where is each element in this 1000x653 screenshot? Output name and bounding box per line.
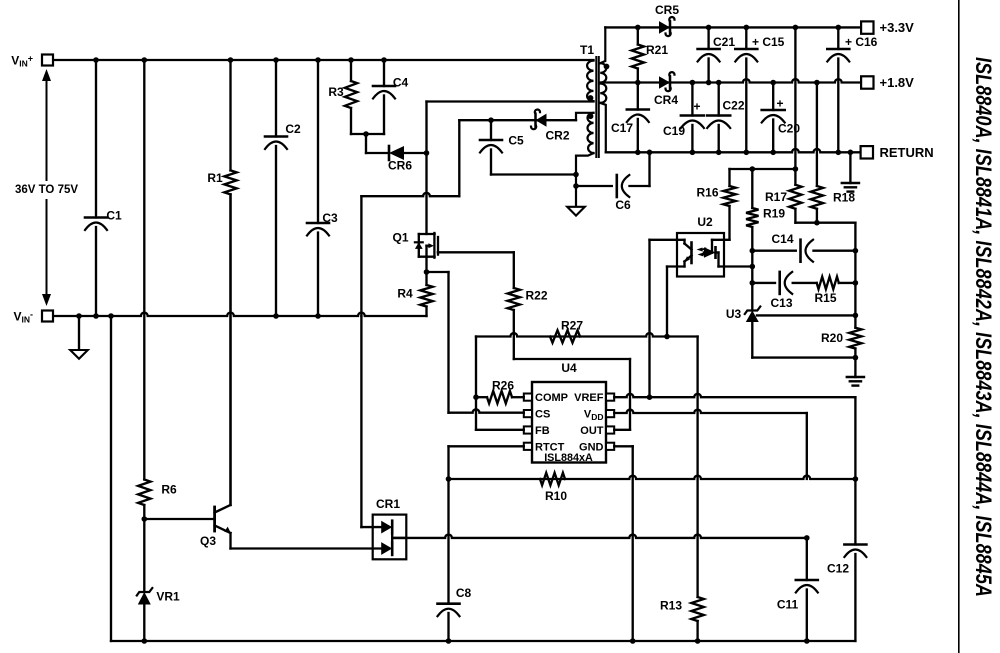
resistor R6 — [138, 480, 150, 506]
svg-text:R13: R13 — [660, 599, 682, 613]
diode CR5 — [659, 21, 670, 34]
wire U2 led cathode — [719, 265, 753, 267]
T1 phase dot primary — [588, 95, 594, 101]
U4 pins — [524, 394, 532, 401]
capacitor C13 — [778, 272, 781, 294]
svg-text:R21: R21 — [646, 43, 668, 57]
svg-text:U3: U3 — [726, 307, 742, 321]
junction bottom VR1 — [142, 638, 148, 644]
wire C6 line — [576, 185, 612, 187]
junction C5 top — [488, 117, 494, 123]
junction C13 left — [750, 280, 756, 286]
svg-text:COMP: COMP — [535, 392, 568, 404]
wire R27 line — [476, 333, 698, 336]
svg-text:C2: C2 — [285, 122, 301, 136]
svg-text:CS: CS — [535, 409, 550, 421]
junction ret C22 — [716, 150, 722, 156]
capacitor C1 — [95, 60, 97, 218]
T1 primary winding — [587, 61, 593, 102]
svg-text:R4: R4 — [397, 287, 413, 301]
svg-text:RTCT: RTCT — [535, 441, 565, 453]
resistor R26 — [487, 391, 512, 403]
junction 3v3 C21 — [706, 25, 712, 31]
svg-text:CR1: CR1 — [376, 497, 400, 511]
junction bottom C11 — [804, 638, 810, 644]
wire base — [144, 518, 213, 520]
T1 aux winding — [588, 113, 594, 153]
svg-text:U4: U4 — [561, 361, 577, 375]
wire R26 to COMP — [476, 396, 487, 398]
junction +3.3 feed — [793, 166, 799, 172]
wire +3.3V rail — [605, 26, 861, 28]
junction R19 top — [750, 166, 756, 172]
wire VREF line — [614, 394, 855, 397]
optocoupler U2 box — [677, 233, 724, 277]
junction 1v8 R18 — [814, 80, 820, 86]
junction VREF U2 — [647, 394, 653, 400]
wire +1.8V rail — [601, 79, 861, 82]
junction R3C4 — [363, 131, 369, 137]
wire Q3 emitter — [229, 533, 231, 549]
svg-text:+3.3V: +3.3V — [880, 20, 915, 35]
wire Q1 source — [425, 257, 427, 272]
junction R20 bottom — [853, 355, 859, 361]
ground aux — [567, 207, 585, 216]
junction 1v8 C20 — [770, 80, 776, 86]
svg-text:C12: C12 — [827, 562, 849, 576]
resistor R20 — [849, 328, 861, 349]
wire R27 right drop — [696, 337, 698, 598]
resistor R4 — [425, 272, 427, 285]
capacitor C8 — [438, 602, 460, 605]
junction ret gnd — [848, 150, 854, 156]
svg-text:C14: C14 — [771, 232, 793, 246]
capacitor C21 — [707, 27, 709, 49]
svg-text:R17: R17 — [765, 190, 787, 204]
terminal VIN- — [42, 311, 53, 322]
terminal +1.8V — [861, 76, 873, 88]
resistor R18 — [816, 83, 818, 187]
shunt regulator U3 — [746, 311, 759, 323]
wire U3 anode — [751, 322, 753, 358]
junction Q1 source — [424, 269, 430, 275]
junction 3v3 feed — [793, 25, 799, 31]
wire CS line — [449, 409, 524, 412]
svg-text:Q1: Q1 — [392, 231, 408, 245]
terminal +3.3V — [861, 21, 873, 33]
wire source to CS — [427, 271, 449, 273]
T1 secondary winding lower — [600, 84, 606, 103]
ground R20 — [854, 358, 856, 377]
diode CR1 upper — [381, 521, 392, 534]
resistor R16 — [723, 186, 735, 206]
svg-text:T1: T1 — [580, 43, 594, 57]
wire C6 right — [630, 185, 650, 187]
junction bottom C8 — [446, 638, 452, 644]
resistor R19 — [751, 169, 753, 208]
wire CR1 upper anode — [361, 526, 381, 528]
junction aux node2 — [573, 183, 579, 189]
capacitor C15 — [745, 27, 747, 49]
svg-text:C1: C1 — [106, 209, 122, 223]
junction ret C19 — [690, 150, 696, 156]
svg-text:+1.8V: +1.8V — [880, 75, 915, 90]
junction R10 left — [446, 476, 452, 482]
transistor Q3 — [213, 507, 216, 531]
svg-text:ISL8840A, ISL8841A, ISL8842A,: ISL8840A, ISL8841A, ISL8842A, ISL8843A, … — [971, 57, 996, 597]
wire CR6 to drain — [404, 152, 427, 154]
svg-text:R1: R1 — [207, 171, 223, 185]
wire bottom rail — [111, 640, 855, 642]
resistor R22 — [508, 288, 520, 310]
svg-text:C6: C6 — [615, 198, 631, 212]
junction ret C16 — [836, 150, 842, 156]
wire CR2 line — [459, 119, 576, 121]
junction 3v3 C16 — [836, 25, 842, 31]
resistor R10 — [540, 473, 565, 485]
wire C14 line — [752, 250, 796, 252]
resistor R3 — [350, 60, 352, 81]
capacitor C17 — [637, 83, 639, 110]
svg-text:RETURN: RETURN — [880, 145, 934, 160]
junction C14 right — [853, 248, 859, 254]
junction 1v8 R21 — [635, 80, 641, 86]
capacitor C20 — [772, 83, 774, 111]
svg-text:+: + — [776, 97, 783, 111]
wire drain vertical — [425, 102, 427, 235]
input range arrow — [46, 80, 48, 180]
wire gate — [438, 251, 514, 253]
junction ret C20 — [770, 150, 776, 156]
svg-text:C4: C4 — [393, 76, 409, 90]
terminal RETURN — [861, 146, 873, 158]
resistor R13 — [691, 597, 703, 621]
junction R10 right — [853, 476, 859, 482]
junction R26 left — [473, 394, 479, 400]
wire primary bottom — [427, 100, 594, 102]
ground input — [78, 316, 80, 350]
wire left bus down — [110, 316, 112, 641]
capacitor C22 — [718, 83, 720, 116]
junction bottom GND — [630, 638, 636, 644]
wire U2 emitter out — [667, 265, 685, 267]
transformer core — [595, 57, 597, 157]
svg-text:C11: C11 — [777, 598, 799, 612]
junction bottom R13 — [695, 638, 701, 644]
svg-text:R26: R26 — [492, 379, 514, 393]
junction R6 base — [142, 516, 148, 522]
diode CR1 lower — [381, 542, 392, 555]
wire aux bottom lead — [576, 153, 594, 207]
capacitor C11 — [806, 538, 808, 580]
diode CR6 — [389, 146, 404, 160]
junction R18 bottom — [814, 220, 820, 226]
svg-text:OUT: OUT — [580, 425, 604, 437]
svg-text:+: + — [693, 100, 700, 114]
wire CR1 cathodes — [391, 527, 393, 548]
svg-text:VR1: VR1 — [156, 590, 180, 604]
svg-text:CR2: CR2 — [545, 129, 569, 143]
wire R27 left drop — [475, 337, 477, 398]
capacitor C14 — [799, 240, 802, 262]
capacitor C16 — [837, 27, 839, 49]
junction CR1 VDD — [804, 535, 810, 541]
junction 3v3 C15 — [744, 25, 750, 31]
junction U3 line — [853, 313, 859, 319]
wire OUT riser — [629, 359, 631, 430]
junction R27 U2 — [664, 334, 670, 340]
wire C8 drop — [447, 479, 449, 604]
resistor R27 — [550, 330, 580, 342]
wire RTCT line — [449, 445, 524, 447]
wire node to CR6 — [365, 134, 367, 153]
junction 1v8 C21 — [706, 80, 712, 86]
wire +3.3 feed down — [794, 27, 796, 169]
junction ret C17 — [635, 150, 641, 156]
ground RETURN — [849, 152, 851, 183]
svg-text:C13: C13 — [770, 296, 792, 310]
U2 phototransistor — [690, 243, 693, 264]
junction CR6 drain — [424, 150, 430, 156]
svg-text:Q3: Q3 — [200, 534, 216, 548]
svg-text:R16: R16 — [696, 186, 718, 200]
svg-text:ISL884xA: ISL884xA — [544, 452, 593, 464]
capacitor C4 — [383, 60, 385, 86]
svg-text:C21: C21 — [713, 35, 735, 49]
junction ret C15 — [744, 150, 750, 156]
wire VIN- rail — [53, 313, 426, 316]
wire R22 bottom — [513, 310, 515, 359]
wire U2 collector out — [650, 239, 685, 241]
terminal VIN+ — [42, 55, 53, 66]
T1 phase dot aux — [588, 113, 594, 119]
capacitor C12 — [854, 479, 856, 545]
svg-text:R15: R15 — [814, 291, 836, 305]
junction 1v8 C22 — [716, 80, 722, 86]
svg-text:CR6: CR6 — [388, 159, 412, 173]
svg-text:36V TO 75V: 36V TO 75V — [15, 184, 78, 196]
diode CR4 — [659, 76, 670, 89]
svg-text:C19: C19 — [663, 124, 685, 138]
svg-text:R6: R6 — [161, 483, 177, 497]
capacitor C19 — [691, 83, 693, 116]
junction 3v3 R21 — [635, 25, 641, 31]
wire GND line — [614, 445, 633, 447]
wire FB drop — [475, 397, 477, 430]
wire gate to R22 — [513, 252, 515, 288]
svg-text:C20: C20 — [778, 122, 800, 136]
svg-text:C5: C5 — [508, 134, 524, 148]
mosfet Q1 — [419, 233, 435, 235]
svg-text:CR4: CR4 — [654, 93, 678, 107]
wire R16 top — [728, 169, 730, 186]
resistor R15 — [817, 277, 839, 289]
resistor R17 — [794, 169, 796, 185]
wire U3 cathode line — [757, 314, 855, 316]
U2 led — [711, 240, 713, 253]
wire C5 to aux node — [491, 173, 576, 175]
sidebar divider — [958, 0, 960, 653]
junction R15 right — [853, 280, 859, 286]
wire U2 led anode — [712, 239, 730, 241]
wire C13 line — [752, 282, 775, 284]
svg-text:R10: R10 — [545, 489, 567, 503]
wire aux top lead — [576, 113, 594, 120]
wire R3-C4 node — [351, 133, 384, 135]
capacitor C6 — [615, 175, 618, 197]
svg-text:R3: R3 — [328, 85, 344, 99]
wire VDD line — [614, 410, 807, 413]
controller U4 box — [532, 382, 606, 463]
svg-text:R20: R20 — [821, 331, 843, 345]
wire Q3 collector — [229, 194, 231, 505]
svg-text:GND: GND — [579, 441, 604, 453]
wire CR1 out line — [392, 535, 807, 538]
wire CR6 left — [366, 152, 389, 154]
capacitor C5 — [490, 120, 492, 140]
svg-text:C3: C3 — [322, 211, 338, 225]
diode pair CR1 box — [373, 515, 407, 560]
junction ret C6 — [647, 150, 653, 156]
wire RETURN rail — [606, 149, 861, 152]
svg-text:U2: U2 — [697, 215, 713, 229]
resistor R1 — [229, 60, 231, 170]
capacitor C3 — [317, 60, 319, 223]
svg-text:R19: R19 — [763, 207, 785, 221]
wire secondary top lead — [600, 27, 605, 63]
wire top rail VIN+ — [53, 59, 593, 61]
wire R10 line — [449, 476, 856, 479]
svg-text:C17: C17 — [611, 121, 633, 135]
svg-text:R27: R27 — [561, 319, 583, 333]
junction U2 cathode — [750, 264, 756, 270]
wire R17R18 bottoms — [795, 222, 855, 224]
wire OUT line — [614, 429, 630, 431]
svg-text:FB: FB — [535, 425, 550, 437]
diode CR2 — [536, 114, 547, 127]
svg-text:C8: C8 — [456, 586, 472, 600]
wire drain — [361, 193, 459, 196]
zener VR1 — [143, 519, 145, 592]
junction dots top rail — [93, 57, 99, 63]
svg-text:R22: R22 — [525, 289, 547, 303]
svg-text:+ C15: + C15 — [752, 35, 785, 49]
svg-text:C22: C22 — [723, 99, 745, 113]
T1 phase dot secondary — [604, 64, 610, 70]
svg-text:CR5: CR5 — [655, 3, 679, 17]
junction 1v8 C19 — [690, 80, 696, 86]
junction C14 left — [750, 248, 756, 254]
svg-text:+ C16: + C16 — [845, 35, 878, 49]
junction dots VIN- rail — [76, 313, 82, 319]
junction aux node1 — [573, 172, 579, 178]
T1 secondary winding upper — [600, 63, 606, 82]
svg-text:VREF: VREF — [574, 392, 604, 404]
wire secondary bottom lead — [600, 103, 606, 152]
capacitor C2 — [275, 60, 277, 137]
resistor R21 — [637, 27, 639, 44]
